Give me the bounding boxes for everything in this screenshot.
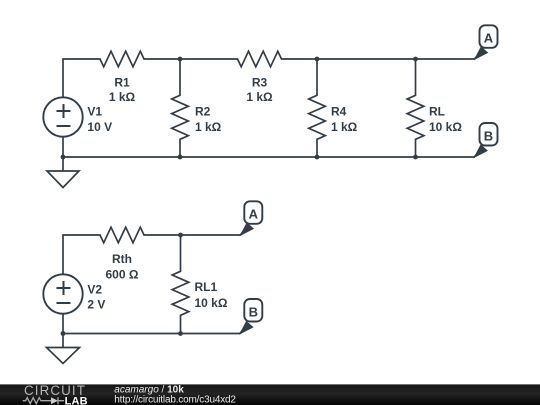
svg-text:R4: R4 <box>331 105 347 119</box>
svg-text:LAB: LAB <box>65 395 88 405</box>
svg-text:2 V: 2 V <box>87 298 105 312</box>
svg-text:V1: V1 <box>87 105 102 119</box>
svg-text:10 kΩ: 10 kΩ <box>195 296 228 310</box>
svg-text:10 V: 10 V <box>87 120 112 134</box>
svg-text:R2: R2 <box>195 105 211 119</box>
svg-text:1 kΩ: 1 kΩ <box>246 90 273 104</box>
svg-text:RL: RL <box>429 105 445 119</box>
svg-text:V2: V2 <box>87 283 102 297</box>
svg-text:600 Ω: 600 Ω <box>106 268 139 282</box>
svg-text:A: A <box>484 31 494 46</box>
svg-text:10 kΩ: 10 kΩ <box>429 120 462 134</box>
svg-text:B: B <box>484 128 493 143</box>
svg-text:A: A <box>249 207 259 222</box>
svg-text:1 kΩ: 1 kΩ <box>331 120 358 134</box>
svg-text:1 kΩ: 1 kΩ <box>195 120 222 134</box>
svg-text:Rth: Rth <box>112 252 132 266</box>
svg-text:http://circuitlab.com/c3u4xd2: http://circuitlab.com/c3u4xd2 <box>114 395 236 405</box>
svg-text:1 kΩ: 1 kΩ <box>109 90 136 104</box>
svg-text:R3: R3 <box>252 76 268 90</box>
svg-text:R1: R1 <box>114 76 130 90</box>
svg-text:B: B <box>249 304 258 319</box>
svg-text:RL1: RL1 <box>195 280 218 294</box>
